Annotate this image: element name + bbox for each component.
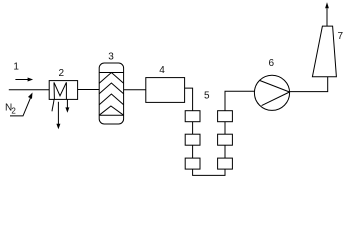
svg-text:6: 6 bbox=[269, 58, 275, 69]
svg-text:7: 7 bbox=[338, 31, 344, 42]
svg-text:4: 4 bbox=[159, 65, 165, 76]
svg-text:1: 1 bbox=[13, 61, 19, 72]
svg-text:2: 2 bbox=[11, 107, 16, 116]
svg-text:2: 2 bbox=[59, 68, 65, 79]
svg-text:5: 5 bbox=[204, 91, 210, 102]
svg-text:3: 3 bbox=[108, 52, 114, 63]
